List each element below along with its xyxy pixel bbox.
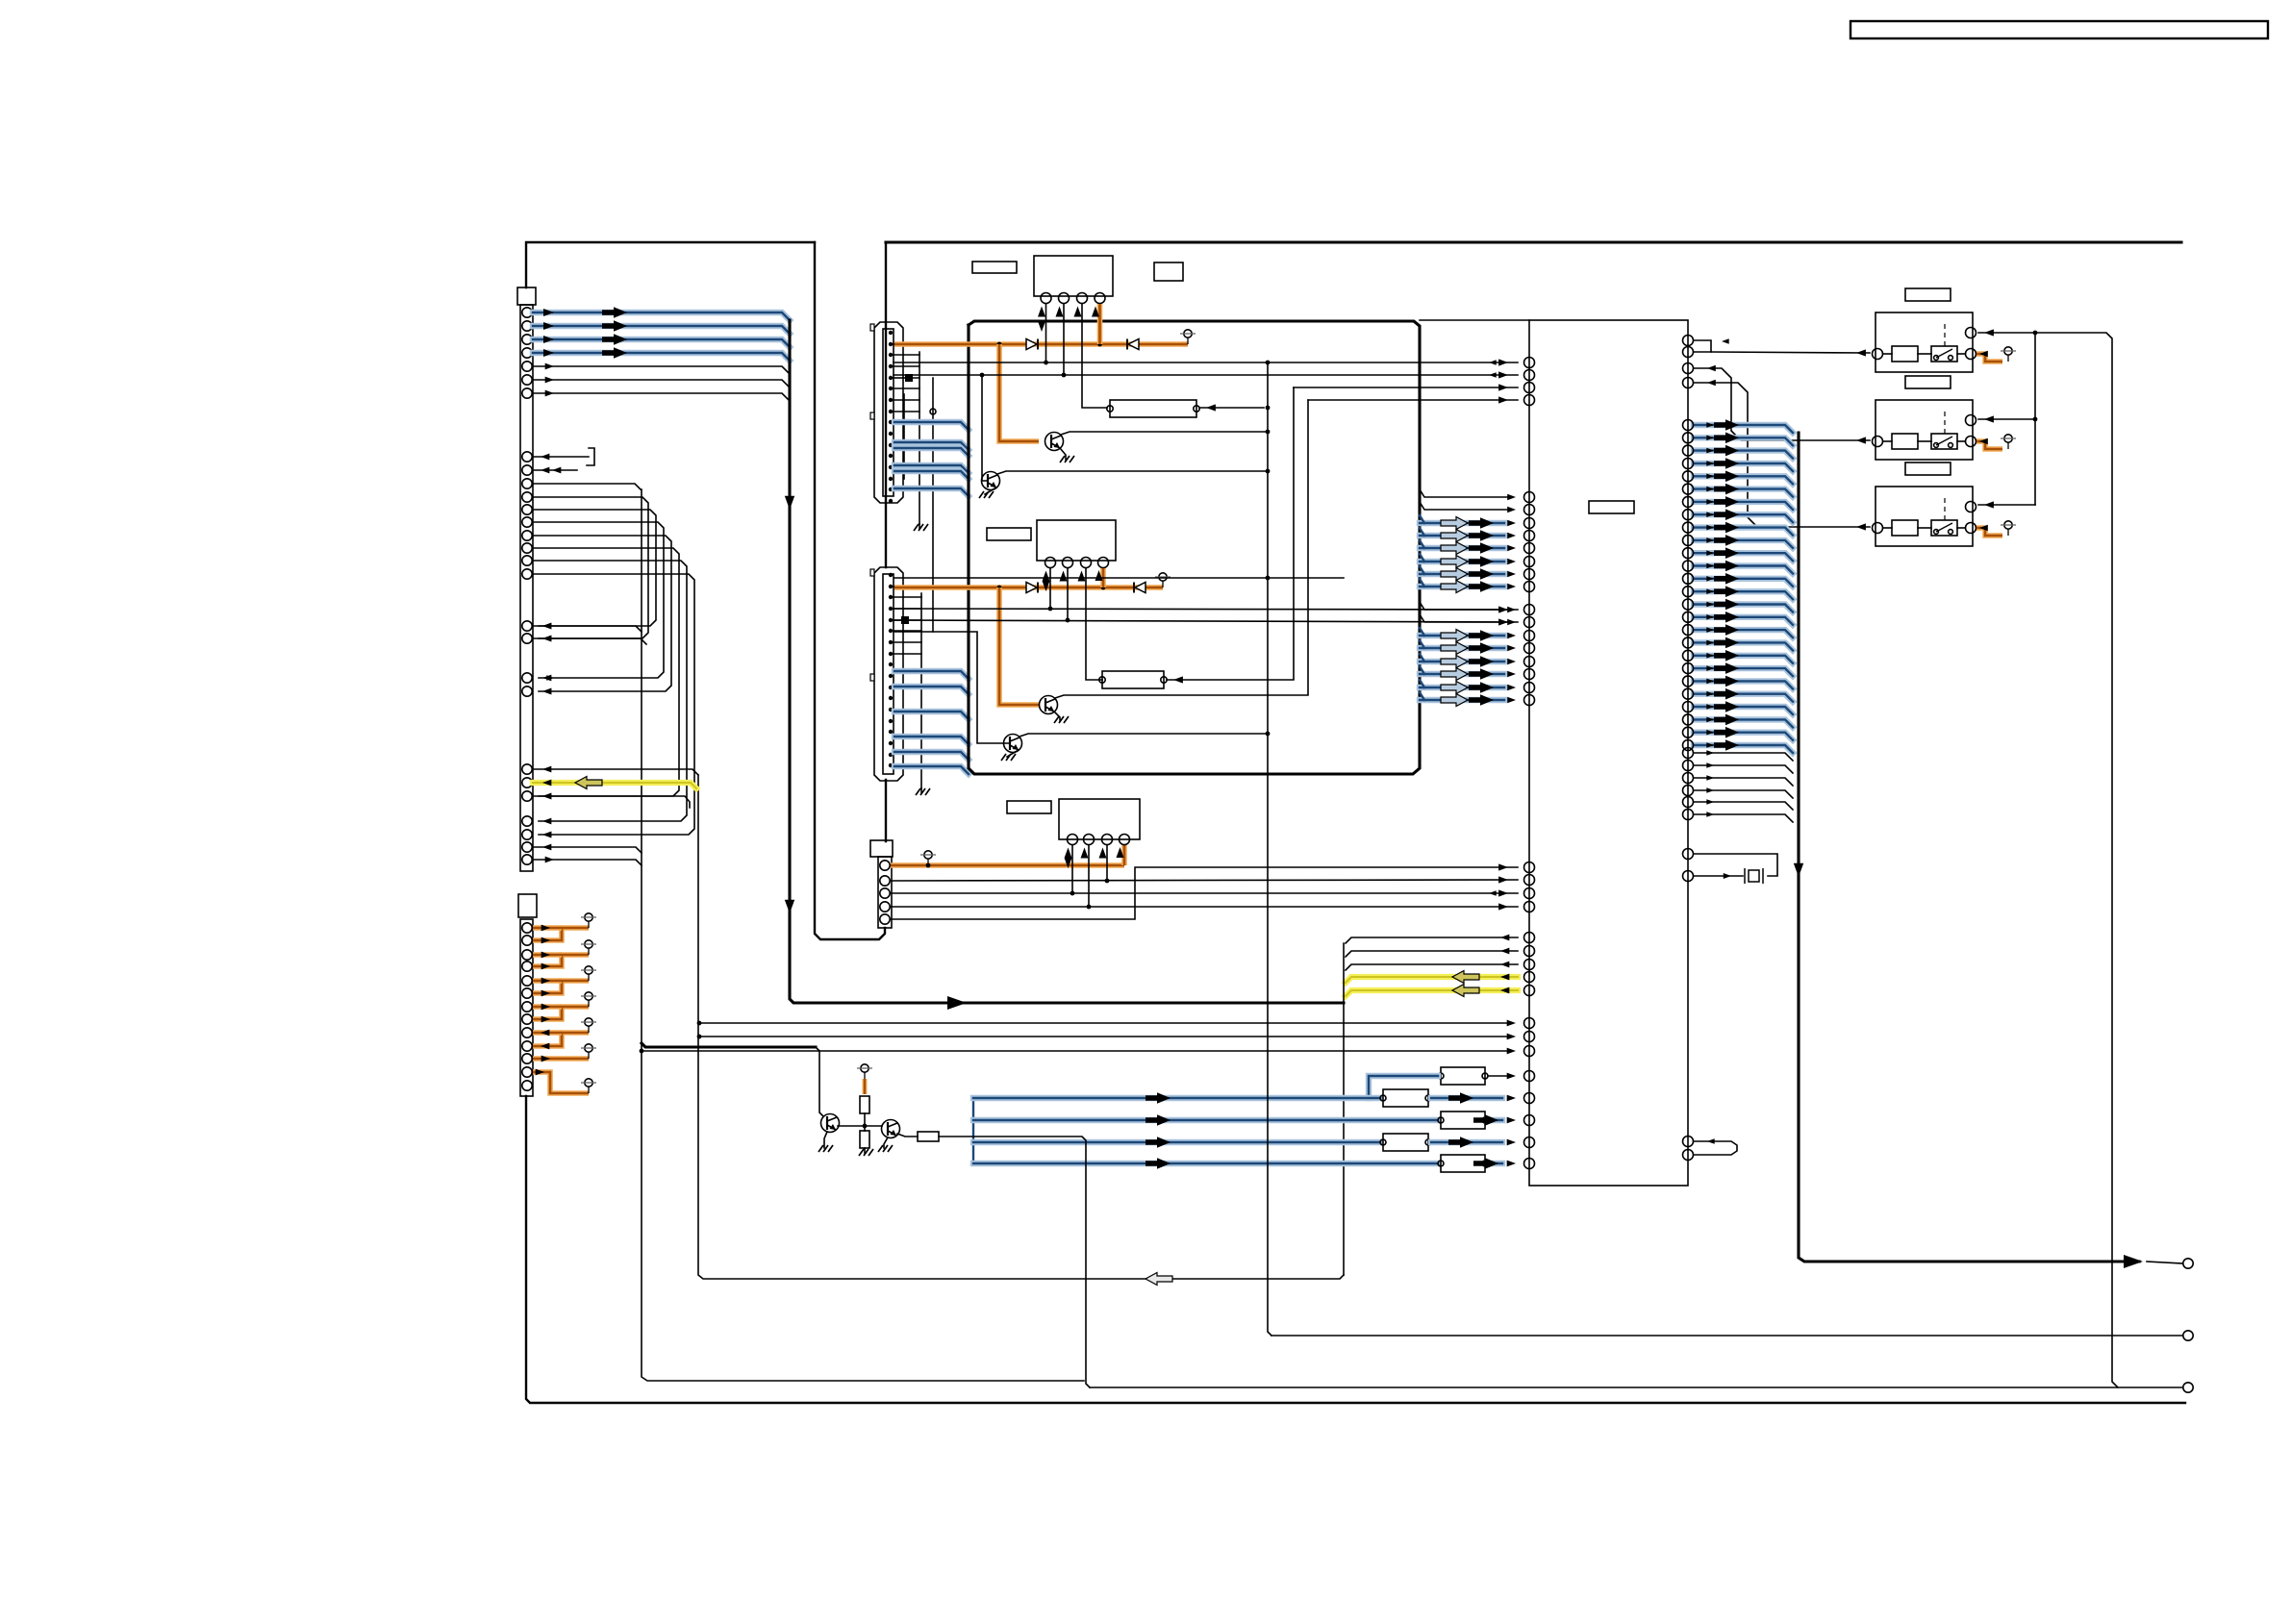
connector CN-A square [517,287,536,305]
pin CN-B @1047 [522,1002,532,1012]
IC2 pin [1098,558,1109,568]
connector internal tie line [920,593,922,788]
wire to relay RL3 with jog [1694,383,1870,527]
relay RL1 coil resistor [1892,346,1918,362]
frame: left box outline [526,242,815,287]
pin CN-A @664 [522,634,532,643]
pin CN-B @1005 [522,962,532,971]
relay RL3 orange stub [1976,528,2002,536]
return line y=1330 arrow [1145,1273,1172,1286]
pin CN-A @814 [522,778,532,787]
orange riser IC2 pin4 [1100,568,1106,587]
thick wire into Q5 [642,1043,816,1047]
jumper wire [1694,1141,1737,1155]
pin CN-B @1115 [522,1067,532,1077]
connector CN-C drop to CN-D [932,378,934,632]
pin CN-B @1020 [522,976,532,986]
title box (top right) [1850,21,2268,38]
IC4 left pins group1 [1524,358,1535,368]
wire R1 to feedback bus [1199,407,1264,409]
IC2 pin3 line to R2 [1086,568,1102,680]
relay RL2 dashed link [1944,410,1946,434]
pin CN-A @868 [522,830,532,839]
label box L4 inside IC4 [1589,501,1634,513]
relay RL3 dashed link [1944,496,1946,520]
wire R2 feedback [1167,387,1294,680]
transistor Q4 [1004,735,1022,753]
pin CN-A @651 [522,621,532,631]
black wires into IC4 left group2/3 heads [1420,489,1510,497]
Q4 collector wire [1020,734,1268,737]
relay RL3 switch [1931,520,1957,536]
label box L3 [1007,801,1051,813]
pin CN-B @1074 [522,1028,532,1037]
Q6 emitter ground [884,1137,888,1148]
pin CN-A @353 [522,335,532,344]
transistor Q2 [982,472,1000,490]
small box right of IC1 [1154,262,1183,281]
row to IC pin 403 [1294,387,1518,388]
pin CN-A @828 [522,791,532,801]
IC3 pin [1120,835,1130,845]
pin CN-A @367 [522,348,532,358]
wire to relay RL1 [1711,352,1870,353]
pin CN-A @705 [522,673,532,683]
crystal circuit [1694,854,1777,876]
Q2 emitter ground [985,487,996,494]
pin CN-A @543 [522,517,532,527]
pin CN-A @409 [522,388,532,398]
transistor Q3 [1040,696,1058,714]
connector outline [874,567,903,781]
IC1 pin [1077,293,1088,304]
orange riser IC1 pin4 [1097,304,1103,344]
IC4 left pins mid group [1524,862,1535,873]
wire bundle long bus x=667 [642,489,1084,1381]
IC4 right black rows [1683,748,1694,759]
pin CN-A @530 [522,505,532,514]
IC4 right blue rows [1694,425,1793,433]
relay RL1 pins [1873,349,1883,360]
wire bundle long bus x=726 [698,775,1344,1279]
connector CN-A lower square [518,894,537,917]
resistor R2 [1102,671,1164,688]
blue wires into IC4 left (from ring bus) [1420,520,1504,526]
resistor R4 row 1142 blue [973,1095,1380,1101]
frame: main board box left edge [885,242,887,567]
pin CN-A @881 [522,842,532,852]
wire bundle CN-A upper rows [533,484,641,489]
blue wires CN-A to bus [533,312,790,320]
relay RL1 orange stub [1976,354,2002,362]
pin CN-A @597 [522,569,532,579]
orange single CN-B pin1101 [533,1056,589,1062]
bias chain power [857,1064,872,1079]
resistor R7 row 1210 blue [973,1161,1438,1166]
row to IC pin 377 [894,362,1518,363]
Q2 collector wire [997,471,1268,474]
wire CN-A pin489 stub [533,469,577,471]
wire ring-to-IC4 link [1420,319,1529,321]
wire CN-A pin475 stub bracket [533,456,589,458]
label box L1 [972,262,1017,273]
test point mark [901,616,909,624]
pin CN-A @475 [522,452,532,462]
frame: main board box top edge [886,240,2181,243]
row 902 via riser [891,867,1518,919]
pin CN-A @489 [522,465,532,475]
wire rows 651 664 [533,626,642,632]
wire row 868 [542,832,551,838]
connector CN-E body [878,857,892,928]
pin CN-A @517 [522,492,532,502]
IC2 pin1 line [1049,568,1051,609]
pin CN-A @719 [522,687,532,696]
blue feed bus bottom-left [972,1098,974,1163]
IC3 pin3 line [1106,845,1108,881]
rows CN-D to IC 634 647 [894,609,1518,610]
pin CN-A @854 [522,816,532,826]
crystal pins [1683,849,1694,860]
bottom line to OUT3 [1090,1387,2182,1388]
orange riser IC3 pin4 [1121,845,1127,865]
connector internal tie line [919,352,920,524]
pin CN-B @978 [522,936,532,945]
connector CN-E square [870,840,893,857]
IC3 pin1 line [1071,845,1073,893]
row to IC pin 416 [1308,399,1518,401]
yellow wire row 814 [533,783,696,788]
relay feed branch [2034,333,2036,505]
pin CN-A @894 [522,855,532,864]
pin CN-A @583 [522,556,532,565]
pin CN-B @965 [522,923,532,933]
yellow pins [1524,972,1535,983]
label box L2 [987,528,1031,540]
relay feed line top [1978,333,2118,1387]
IC3 regulator box [1059,799,1140,839]
pin CN-A @395 [522,375,532,385]
relay RL2 pins [1873,437,1883,447]
bundle x=1397 down to 1330 line [1343,943,1345,1275]
pin CN-A @557 [522,531,532,540]
connector CN-C internal tie2 [903,394,905,479]
pin CN-A @800 [522,764,532,774]
pin CN-E @900 [880,861,890,870]
output circle OUT3 [2183,1383,2193,1392]
IC1 pin1 line [1045,304,1047,362]
IC4 left pins bottom group [1524,1018,1535,1029]
pin CN-A @325 [522,308,532,317]
pin CN-B @1060 [522,1014,532,1024]
IC2 pin [1045,558,1056,568]
orange power wire reg2 [894,585,1156,590]
Q2 base feed [982,375,987,481]
wire row 800 to bus726 [533,769,698,775]
relay RL1 label box [1905,288,1951,301]
pin CN-A @339 [522,321,532,331]
relay RL2 label box [1905,376,1951,388]
pin CN-B @1101 [522,1054,532,1063]
connector CN-A body [520,305,533,871]
Q5 emitter ground [824,1132,827,1148]
IC4 right pins blue group [1683,420,1694,431]
Q4 base feed from CN-D [894,632,1009,743]
relay RL1 box [1876,312,1973,372]
test point mark [905,374,913,382]
pin CN-E @943 [880,902,890,912]
transistor Q5 [821,1114,840,1133]
orange branch down to Q3 [999,587,1040,705]
resistor R3 row 1119 [1441,1067,1485,1085]
bottom line to OUT2 [1271,1335,2182,1337]
row to IC pin 390 [894,374,1518,376]
blue wires CN-D to ring bus [894,671,969,679]
feedback vertical x=1318 [1268,362,1271,1336]
connector CN-B body (orange outputs) [520,919,533,1096]
pin CN-A @570 [522,543,532,553]
pin CN-A @503 [522,479,532,488]
pin CN-E @956 [880,914,890,924]
IC2 regulator box [1037,520,1116,561]
IC4 main microcontroller box [1529,320,1688,1186]
Q1 collector wire [1061,432,1268,435]
relay RL3 label box [1905,462,1951,475]
frame: bottom line [526,1096,2185,1403]
yellow wires out of IC4 [1346,977,1518,983]
IC2 pin [1081,558,1092,568]
Q4 emitter ground [1007,750,1019,757]
relay RL3 box [1876,487,1973,546]
thick ring bus (board power loop) [969,321,1420,774]
Q1 emitter ground [1060,448,1066,460]
bus wire x=821 down to bottom arrow line [790,320,1344,1003]
relay RL2 orange stub [1976,441,2002,449]
wires out of IC4 (to bundle x=1397) [1346,937,1518,943]
bias resistor Rb [860,1131,869,1148]
pin CN-E @929 [880,888,890,898]
Q3 collector wire [1055,400,1308,698]
pin CN-E @916 [880,876,890,886]
pin CN-B @993 [522,950,532,960]
IC4 right pins top group [1683,336,1694,346]
IC3 pin [1068,835,1078,845]
output circle OUT2 [2183,1331,2193,1340]
Q6 collector out [897,1134,918,1137]
IC3 pin [1102,835,1113,845]
rows CN-E to IC pins [891,880,1518,881]
IC1 pin2 line [1063,304,1065,375]
thick bus x=1870 to output circle [1799,433,2139,1262]
resistor R6 row 1188 blue [973,1139,1380,1145]
crystal X1 [1749,870,1759,882]
orange power wire reg1 [894,341,1181,347]
relay RL3 coil resistor [1892,520,1918,536]
IC1 pin [1041,293,1051,304]
orange branch down to Q1 [999,344,1039,441]
Q3 emitter ground [1054,712,1060,720]
IC1 regulator box [1034,256,1113,296]
wire rows 881 894 от bus667 [533,847,642,853]
pin CN-B @1129 [522,1081,532,1090]
pin CN-B @1088 [522,1041,532,1051]
transistor Q1 [1045,433,1064,451]
Q5 collector to node [838,1125,865,1127]
IC2 pin [1063,558,1073,568]
relay RL1 dashed link [1944,322,1946,346]
relay RL2 coil resistor [1892,434,1918,449]
output circle OUT1 [2183,1259,2193,1268]
black wires CN-A to bus [533,366,790,374]
IC4 left pins group2 [1524,492,1535,503]
ground [920,788,922,793]
bias resistor Ra [863,1079,868,1094]
orange wire CN-E to IC3 [891,862,1124,868]
jumper pins bottom right of IC4 [1683,1137,1694,1147]
transistor Q6 [865,1125,882,1127]
IC1 pin [1095,293,1105,304]
wire to relay RL2 with jog [1694,368,1870,440]
IC3 pin2 line [1088,845,1090,907]
orange harness pairs CN-B [533,928,589,940]
IC1 pin3 line to R1 [1082,304,1107,408]
long rows to IC 1064/1078/1093 [699,1022,1510,1024]
wire row 828 to bus [533,796,690,808]
pin CN-A @381 [522,362,532,371]
relay RL1 switch [1931,346,1957,362]
blue wires CN-C to ring bus [894,422,969,430]
relay RL3 pins [1873,523,1883,534]
IC1 pin [1059,293,1070,304]
row CN-D 601 [894,577,1344,579]
ground [919,524,920,529]
orange step CN-B pin1115 [533,1072,589,1093]
jumper pins 354/366 bracket [1694,340,1711,352]
connector outline [874,322,903,503]
wire rows 705 719 from bundle [546,675,554,681]
resistor R1 [1110,400,1196,417]
relay RL2 box [1876,400,1973,460]
IC3 pin [1084,835,1095,845]
relay RL2 switch [1931,434,1957,449]
IC2 pin2 line [1067,568,1069,620]
pin CN-B @1033 [522,988,532,998]
resistor R5 row 1165 blue [973,1117,1438,1123]
